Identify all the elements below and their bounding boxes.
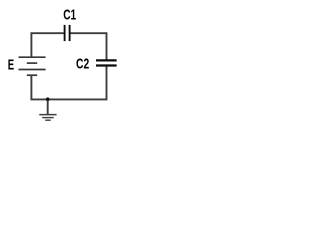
wire top-left from battery up and right to C1 xyxy=(31,33,63,57)
svg-text:C2: C2 xyxy=(76,56,89,72)
wire top-right from C1 right and down to C2 xyxy=(70,33,106,60)
svg-text:C1: C1 xyxy=(63,8,76,24)
junction dot xyxy=(46,97,50,101)
battery E xyxy=(19,57,46,75)
capacitor C2 xyxy=(96,60,117,65)
wire ground stub xyxy=(47,99,49,114)
capacitor C1 xyxy=(65,25,70,41)
wire right-bottom-left from C2 down, across bottom, up to battery xyxy=(31,66,106,100)
ground xyxy=(39,115,56,121)
svg-text:E: E xyxy=(8,58,15,74)
